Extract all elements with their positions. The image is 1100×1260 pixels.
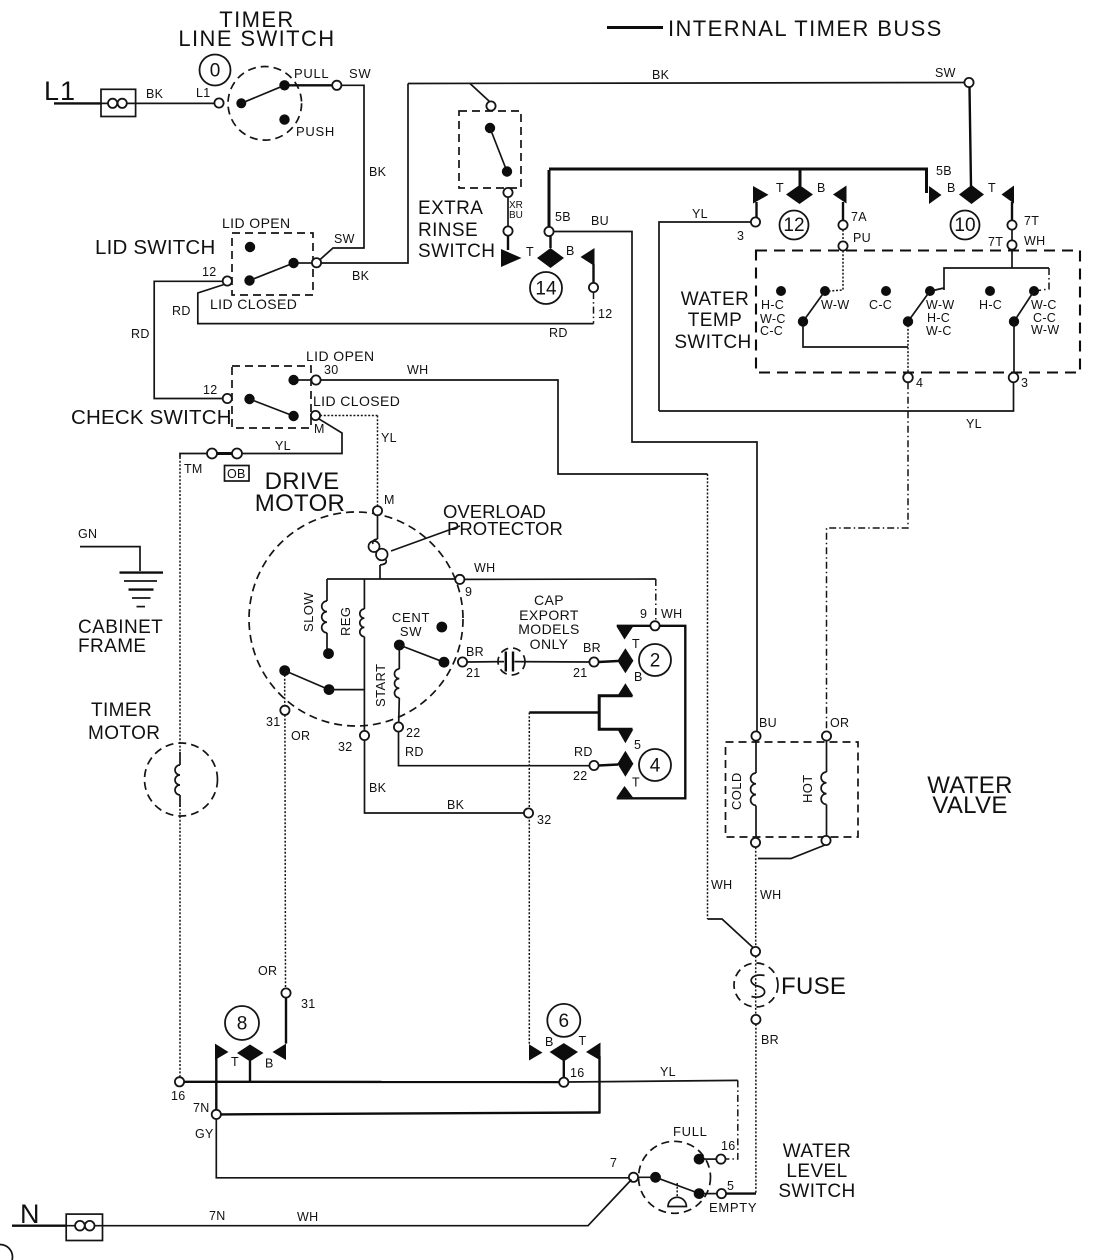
arm pivot dot 3 [1009,316,1019,326]
overload protector symbol [373,539,378,544]
contact dot H-C group5 [985,286,995,296]
wire YL node3 down then left [659,382,1014,411]
node 3 [751,217,760,226]
junction small left branch [933,288,944,291]
arm pivot dot [244,275,254,285]
svg-text:PUSH: PUSH [296,124,335,139]
node 32b [524,808,533,817]
node M motor [373,506,382,515]
svg-text:5B: 5B [936,164,952,178]
svg-text:32: 32 [537,813,552,827]
stem T flag to 7T [1011,202,1013,221]
svg-text:REG: REG [338,607,353,636]
switch arm 1 [803,291,825,322]
stem B flag to 7A [842,202,844,221]
svg-text:BK: BK [652,68,670,82]
wire GY 7N down and right to node 7 [216,1119,629,1178]
svg-text:SWITCH: SWITCH [418,241,495,262]
water level arm [656,1177,699,1193]
svg-text:FRAME: FRAME [78,636,147,657]
node 16b [559,1078,568,1087]
svg-text:H-C: H-C [927,311,950,325]
svg-text:COLD: COLD [729,772,744,810]
svg-text:2: 2 [650,651,661,672]
T flag triangle [586,1043,601,1061]
wire WH joining valve outlets [758,845,825,859]
buss stem to diamond 12 [799,169,802,186]
svg-text:OR: OR [258,964,277,978]
lid switch dashed box [232,233,313,295]
dotted link dome to pivot [676,1183,678,1197]
stem diamond 8 down to wire 16 [249,1061,251,1082]
node 22b [589,761,598,770]
wire OR dotted down [284,715,287,989]
timer line switch dashed circle [228,67,302,141]
wire node M diagonal to TM [242,419,342,454]
stem B flag to pin 12 [592,264,594,283]
svg-text:16: 16 [721,1139,736,1153]
svg-text:7T: 7T [1024,214,1039,228]
svg-text:32: 32 [338,740,353,754]
svg-text:14: 14 [535,279,557,300]
middle up triangle [618,683,634,696]
contact dot top [485,123,495,133]
svg-text:SWITCH: SWITCH [778,1181,855,1202]
T flag triangle [753,186,769,204]
pressure dome symbol [668,1197,686,1206]
svg-text:SWITCH: SWITCH [674,332,751,353]
motor arm pivot dot [279,665,290,676]
wire GN [80,547,140,571]
wire PULL to SW node (thick) [288,84,332,86]
ground symbol cabinet frame [120,571,164,573]
internal timer buss thick wire [549,169,927,193]
svg-text:SW: SW [334,232,355,246]
svg-text:LID CLOSED: LID CLOSED [210,296,297,312]
svg-text:3: 3 [737,229,744,243]
T flag triangle [501,249,522,267]
svg-text:ONLY: ONLY [530,636,569,652]
wire WH N to water level node 7 [103,1180,632,1226]
svg-text:B: B [545,1035,554,1049]
arm end dot [324,684,335,695]
wire BK node32 down right to node32b [365,740,524,813]
svg-text:START: START [373,664,388,707]
wire dotted through fuse [755,956,757,1015]
svg-text:21: 21 [466,666,481,680]
B flag triangle [929,186,942,204]
capacitor C1 plates [505,652,507,672]
wire SW node down to connector 10 [970,87,972,186]
svg-text:TIMER: TIMER [91,700,152,721]
svg-text:WH: WH [711,878,732,892]
wire XR segment [507,197,509,226]
svg-text:T: T [632,637,640,651]
svg-text:C-C: C-C [760,324,783,338]
svg-text:LID CLOSED: LID CLOSED [313,393,400,409]
legend thick line sample [607,26,663,29]
svg-text:B: B [566,244,575,258]
contact dot C-C [881,286,891,296]
svg-text:SW: SW [349,66,371,81]
svg-text:B: B [817,181,826,195]
coil HOT [821,772,826,804]
wire top BK from x408 to SW node top right [408,83,964,84]
svg-text:YL: YL [966,417,982,431]
node 32 [360,731,369,740]
svg-text:MODELS: MODELS [518,621,580,637]
diamond 10 [959,185,984,204]
node OR [822,731,831,740]
node lid switch out [312,258,321,267]
wire BU from node 5B right and down [554,232,757,732]
svg-text:SW: SW [935,66,956,80]
svg-text:VALVE: VALVE [932,792,1007,819]
wire 7T/WH header inside box [944,268,1049,290]
wire 7T/WH into water temp switch [1011,250,1013,268]
diamond 8 [237,1045,264,1062]
svg-text:4: 4 [650,756,661,777]
diamond 12 [786,185,813,204]
wire from 32 line into link [529,711,599,713]
svg-text:12: 12 [202,265,217,279]
drive motor dashed circle [249,512,463,726]
motor speed arm [285,671,329,690]
arm pivot dot 2 [903,316,913,326]
terminal box L1 [101,89,136,116]
contact dot slow [323,648,334,659]
svg-text:16: 16 [171,1089,186,1103]
svg-text:PU: PU [853,231,871,245]
node 12 lid switch [223,276,232,285]
node fuse bottom [751,1015,760,1024]
svg-text:MOTOR: MOTOR [88,723,160,744]
svg-text:GN: GN [78,527,97,541]
svg-text:0: 0 [210,61,221,82]
switch arm contact dot [236,98,246,108]
connector circle 12 [780,211,809,240]
svg-text:T: T [579,1034,587,1048]
svg-text:H-C: H-C [979,298,1002,312]
node empty 5 [717,1189,726,1198]
node 21 [458,657,467,666]
wire COLD to bottom node [755,806,757,838]
wire YL vertical to motor M [377,416,379,507]
stem T flag down to node 7N [215,1058,217,1110]
wire through timer motor [179,752,181,765]
svg-text:W-W: W-W [1031,323,1059,337]
svg-text:BR: BR [761,1033,779,1047]
wire contact to node [298,262,311,264]
wire WH node9 to cap bracket [464,578,655,580]
wire branch from top BK to extra rinse [470,84,491,103]
svg-text:WH: WH [474,561,495,575]
B flag triangle [581,248,595,266]
svg-text:GY: GY [195,1127,214,1141]
bottom flag triangle [617,786,633,797]
svg-text:BK: BK [369,165,387,179]
wire M to overload [377,515,379,539]
box OB [225,466,250,482]
svg-text:W-C: W-C [926,324,952,338]
wire YL node3 left and down [659,222,751,411]
node 30 [311,375,320,384]
node 7T [1007,220,1016,229]
svg-text:OB: OB [227,467,246,481]
pivot dot water level [650,1172,661,1183]
svg-text:31: 31 [301,997,316,1011]
contact dot lid open [288,375,298,385]
wire REG branch [363,579,365,609]
node SW [332,81,341,90]
node 5B [544,227,553,236]
node extra rinse top [486,101,495,110]
svg-text:B: B [947,181,956,195]
svg-text:INTERNAL TIMER BUSS: INTERNAL TIMER BUSS [668,16,943,41]
middle down triangle [618,730,634,744]
diamond 14 [537,248,564,268]
wire capacitor to node 21b [515,661,590,663]
connector circle 0 [200,55,231,86]
wire REG down to node 32 [363,637,365,731]
water temp switch dashed box [756,251,1080,373]
wire to connector 14 T flag [507,236,509,250]
wire HOT to bottom node [826,805,828,836]
wire SW right then down to lid switch [317,85,365,262]
svg-text:WH: WH [407,363,428,377]
contact dot W-W group4 [925,286,935,296]
svg-text:YL: YL [692,207,708,221]
T flag triangle [215,1044,229,1060]
wire dotted vertical through 32b down to connector 6 [528,713,530,1045]
wire node21 to capacitor [467,661,504,663]
node SW top right [964,78,973,87]
wire WH header inside motor [327,578,455,580]
svg-text:W-C: W-C [1031,298,1057,312]
cent sw arm [399,645,444,662]
wire OR node into valve [826,741,828,772]
wire PU dotted into water temp switch [830,251,843,291]
wire contact to node 30 [298,379,311,381]
stem T flag to node 3 [755,202,757,218]
connector circle 10 [951,211,980,240]
svg-text:WATER: WATER [681,289,750,310]
node 31 lower [281,988,290,997]
svg-text:M: M [314,422,325,436]
svg-text:16: 16 [570,1066,585,1080]
middle thick C link [599,696,632,729]
svg-text:T: T [526,245,534,259]
wire WH vertical dotted [707,474,709,919]
svg-text:LEVEL: LEVEL [786,1161,847,1182]
svg-text:EXTRA: EXTRA [418,198,483,219]
node 7T WH [1007,240,1016,249]
svg-text:B: B [634,670,643,684]
svg-text:BK: BK [352,269,370,283]
wire 7N thick to connector 6 T flag [221,1113,600,1115]
wire TM to left vertical [180,454,207,458]
svg-text:WH: WH [760,888,781,902]
extra rinse dashed box [459,111,521,188]
wire node7 to pivot [638,1176,655,1178]
svg-text:5B: 5B [555,210,571,224]
switch arm lid closed [250,263,294,281]
svg-text:9: 9 [640,607,647,621]
wire node 4 dash-dot down to water valve OR [827,382,909,731]
svg-text:PROTECTOR: PROTECTOR [447,518,563,539]
wire BK L1 box to node L1 [136,102,214,104]
svg-text:BU: BU [591,214,609,228]
svg-text:B: B [265,1057,274,1071]
node 7 [629,1173,638,1182]
wire 7A to PU dotted [842,230,844,242]
wire RD lid 12 to connector 14 pin 12 [198,285,594,324]
wire left vertical dotted timer motor to node 16 [179,805,181,1077]
svg-text:5: 5 [727,1179,734,1193]
stem diamond 6 to node 16b [563,1061,565,1078]
svg-text:SW: SW [400,624,422,639]
svg-text:BR: BR [466,645,484,659]
svg-text:CAP: CAP [534,592,564,608]
connector circle 4 [639,749,671,781]
contact dot [288,258,298,268]
stem node 5B to buss [548,170,551,227]
svg-text:31: 31 [266,715,281,729]
arm pivot dot [244,394,254,404]
svg-text:WH: WH [661,607,682,621]
svg-text:12: 12 [598,307,613,321]
svg-text:T: T [632,776,640,790]
bracket top flag triangle [617,627,633,640]
svg-text:CHECK SWITCH: CHECK SWITCH [71,406,232,429]
B flag triangle [273,1044,287,1060]
wire BU node into valve [755,741,757,773]
wire WH bottom jog to fuse top [708,919,754,948]
svg-text:FUSE: FUSE [781,973,846,1000]
fuse S element [751,975,764,997]
svg-text:LID OPEN: LID OPEN [222,215,291,231]
svg-text:TEMP: TEMP [688,310,742,331]
wire BR fuse to water level switch dotted [755,1024,757,1194]
svg-text:PULL: PULL [294,66,329,81]
svg-text:EMPTY: EMPTY [709,1200,757,1215]
wire START to node 22 [398,698,401,723]
connector circle 6 [547,1004,580,1037]
svg-text:W-W: W-W [926,298,954,312]
svg-text:FULL: FULL [673,1124,708,1139]
svg-text:RD: RD [172,304,191,318]
svg-text:LINE SWITCH: LINE SWITCH [178,26,335,51]
B flag triangle [529,1044,543,1060]
water level dashed circle [639,1141,711,1213]
svg-text:LID SWITCH: LID SWITCH [95,236,215,259]
bracket top thick line [617,625,651,627]
arm pivot dot 1 [798,316,808,326]
svg-text:L1: L1 [196,86,211,100]
node M [311,411,320,420]
svg-text:W-W: W-W [821,298,849,312]
node full 16 [716,1155,725,1164]
svg-text:21: 21 [573,666,588,680]
contact dot lid closed [288,411,298,421]
check switch dashed box [232,366,311,428]
node XR upper [503,188,512,197]
B flag triangle [833,186,847,204]
wire dash-dot right branch to W-C contact [1038,268,1049,291]
svg-text:7: 7 [610,1156,617,1170]
wire YL dotted node M to drive motor [320,415,377,417]
TM bar [217,452,232,455]
svg-text:WH: WH [297,1210,318,1224]
coil timer motor [175,765,180,795]
svg-text:YL: YL [381,431,397,445]
switch arm 3 [1014,291,1034,322]
svg-text:OR: OR [830,716,849,730]
wire L1 lead [54,102,101,104]
diamond 6 [550,1043,578,1061]
svg-text:BK: BK [369,781,387,795]
svg-text:RD: RD [549,326,568,340]
svg-text:RINSE: RINSE [418,220,478,241]
svg-text:CABINET: CABINET [78,617,163,638]
node L1 [214,98,223,107]
node 7N [212,1110,221,1119]
node hot bottom [821,836,830,845]
wire thick to diamond 4 [599,765,618,766]
contact dot PULL [279,80,289,90]
node 9WH on bracket [650,621,659,630]
svg-text:L1: L1 [44,76,76,106]
cent sw pivot dot [394,640,405,651]
svg-text:8: 8 [237,1014,248,1035]
wire arm3 to node 3 [1013,322,1015,374]
svg-text:BR: BR [583,641,601,655]
coil COLD [751,773,756,805]
diamond 2 [617,648,633,673]
svg-text:RD: RD [131,327,150,341]
svg-text:5: 5 [634,738,641,752]
wire RD node22 to pin22 [399,732,590,766]
node 21b [589,657,598,666]
diamond 4 [617,751,633,777]
wire SLOW branch [326,579,328,601]
node 12 check switch [223,394,232,403]
svg-text:WH: WH [1024,234,1045,248]
T flag triangle [1002,186,1015,204]
switch arm 2 [908,291,930,322]
svg-text:12: 12 [203,383,218,397]
svg-text:7A: 7A [851,210,867,224]
switch arm [490,128,507,172]
wire START branch [398,650,400,669]
page corner arc [0,1245,13,1260]
node 9 [455,575,464,584]
node fuse top [751,947,760,956]
wire dash-dot down to 9WH node [655,579,657,621]
svg-text:OR: OR [291,729,310,743]
contact dot lid open [245,242,255,252]
contact dot bottom [502,166,512,176]
wire arm1 to node 4 [803,322,908,348]
terminal circles L1 [108,99,117,108]
arm end dot [439,657,450,668]
svg-text:12: 12 [783,215,804,236]
node 31 [280,706,289,715]
svg-text:YL: YL [275,439,291,453]
node PU [838,241,847,250]
wire dash-dot pin12 down to RD [593,292,595,324]
node BU [751,731,760,740]
